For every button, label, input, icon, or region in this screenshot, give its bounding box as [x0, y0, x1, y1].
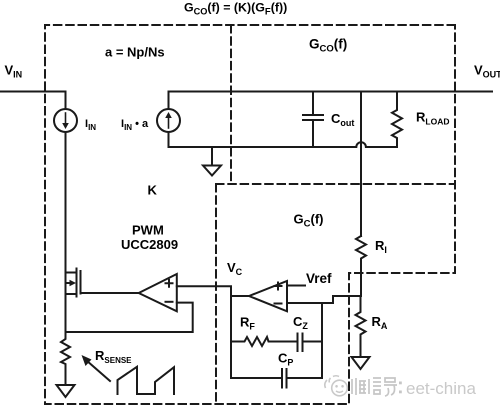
node wire to error amp - input: [287, 296, 361, 303]
svg-text:Vref: Vref: [306, 271, 332, 286]
svg-text:PWM: PWM: [132, 223, 164, 238]
current source IIN: [54, 109, 77, 132]
dashed divider vertical x231: [230, 25, 232, 184]
wire IIN to MOSFET: [65, 132, 67, 273]
top rail VOUT: [169, 91, 493, 93]
wire - input feedback: [66, 303, 193, 332]
ground under RSENSE: [57, 385, 75, 397]
resistor RI: [356, 236, 366, 296]
Vref wire: [287, 285, 305, 287]
resistor RSENSE: [61, 294, 70, 385]
dashed outer box left/top/bottom: [45, 25, 455, 404]
resistor RF: [231, 337, 297, 346]
sawtooth waveform: [118, 367, 175, 394]
right vertical of comp network: [321, 303, 323, 378]
svg-text:a = Np/Ns: a = Np/Ns: [105, 45, 165, 60]
current source IIN*a: [168, 92, 170, 110]
ground under RA: [352, 357, 370, 369]
gate wire: [81, 292, 139, 294]
PWM comparator U2: [139, 274, 177, 311]
wire VC to + input: [177, 285, 231, 287]
capacitor CZ: [298, 334, 323, 352]
capacitor CP on bottom rail: [231, 369, 322, 388]
watermark icon: [325, 376, 348, 396]
op-amp U1 (error amp): [249, 281, 287, 311]
watermark chinese text 微信号:: [352, 378, 402, 396]
annotation arrow: [86, 360, 110, 381]
feedback divider: wire from VOUT down: [360, 92, 362, 237]
ground under bottom rail: [211, 147, 213, 166]
svg-text:UCC2809: UCC2809: [121, 237, 178, 252]
VC node vertical: [230, 287, 232, 379]
dashed Gc(f) box top and left: [216, 184, 455, 404]
resistor RLOAD: [392, 92, 402, 148]
bottom rail with hop: [169, 142, 398, 147]
capacitor Cout: [303, 92, 323, 148]
resistor RA: [356, 296, 366, 357]
transistor Q1 (MOSFET): [66, 272, 77, 274]
svg-text:eet-china: eet-china: [406, 379, 476, 398]
error amp output wire: [231, 295, 249, 297]
wire VIN: [0, 92, 66, 110]
svg-text:K: K: [148, 183, 158, 198]
